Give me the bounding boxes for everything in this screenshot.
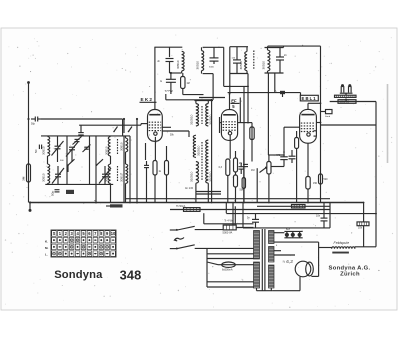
svg-text:50: 50	[34, 149, 38, 153]
coil L14 Feldspule	[332, 247, 355, 254]
trimmer capacitor CT1	[73, 137, 82, 145]
svg-text:Zürich: Zürich	[340, 272, 360, 278]
wire AVC line	[183, 94, 204, 96]
tube EK2 label	[140, 97, 157, 102]
capacitor C10	[238, 163, 244, 174]
resistor R5	[226, 159, 230, 203]
value label EK2 k	[159, 171, 162, 173]
node IFT1 junction	[170, 72, 172, 74]
svg-text:30510: 30510	[119, 142, 123, 151]
svg-text:5000: 5000	[209, 67, 215, 69]
svg-text:30510: 30510	[104, 146, 108, 155]
node bus j5	[268, 202, 270, 204]
node antenna bus junction	[123, 118, 125, 120]
wire EK2 g4	[162, 127, 172, 129]
connector grid switch table	[51, 230, 116, 257]
svg-text:1M: 1M	[187, 83, 190, 85]
wire rail x124b	[123, 136, 125, 203]
padder box	[66, 190, 74, 194]
core dashes IFT2b	[253, 51, 255, 69]
fuse F1 thermal	[176, 205, 200, 211]
capacitor C3 top	[78, 125, 84, 135]
resistor R9 cathode	[306, 143, 310, 202]
switch S bandA	[67, 159, 74, 172]
coil L6 osc	[190, 101, 199, 126]
svg-text:50p: 50p	[51, 191, 55, 196]
value label R9	[313, 182, 318, 185]
wire heater tap 1	[274, 241, 319, 243]
wire electrolytic rail top	[284, 230, 302, 232]
wire primary 4	[207, 281, 254, 283]
svg-text:≈ 6,3: ≈ 6,3	[283, 259, 294, 264]
node bus j6	[307, 202, 309, 204]
svg-text:E K 2: E K 2	[141, 97, 153, 102]
variable capacitor CV2	[52, 166, 64, 184]
wire transformer bottom	[257, 288, 273, 291]
coil L12 IFT2b	[239, 52, 247, 71]
capacitor C18 mains	[247, 213, 259, 228]
capacitor C pad	[51, 190, 60, 196]
capacitor C8 IFT2b	[232, 47, 242, 74]
coil L4b osc sec	[119, 138, 127, 152]
svg-text:5000 VA: 5000 VA	[223, 231, 233, 235]
wire antenna lead-in	[28, 83, 30, 119]
wire coil column 3	[125, 136, 127, 203]
value label IFT1	[165, 89, 174, 93]
switch S1 mains	[170, 226, 223, 231]
wire rail x145	[145, 143, 147, 160]
wire mid column a	[66, 136, 68, 185]
svg-text:3M: 3M	[22, 176, 26, 181]
value label R5	[219, 166, 223, 169]
wire IFT2a mid leg	[212, 74, 214, 100]
fuse F2	[292, 205, 306, 208]
fuse F3 primary	[223, 225, 254, 235]
switch S bandB	[96, 159, 103, 166]
wire EBL1 plate	[308, 102, 321, 109]
wire mains line 2	[257, 205, 330, 207]
wire IF bus	[228, 92, 301, 96]
svg-text:Sand: Sand	[325, 116, 331, 118]
switch contact b	[128, 127, 132, 133]
svg-text:30510: 30510	[262, 61, 266, 70]
wire IFT3 rails	[265, 48, 284, 156]
variable capacitor CV3	[66, 142, 78, 162]
svg-text:L.: L.	[45, 253, 48, 257]
wire x207 primary bus	[207, 248, 212, 287]
wire down to coil box	[123, 119, 125, 133]
capacitor C13 tone	[289, 150, 296, 163]
wire osc top out	[199, 97, 225, 99]
speaker LS1	[295, 261, 313, 277]
caption Sondyna	[54, 269, 103, 281]
wire field coil right	[355, 247, 376, 249]
wire left rail	[28, 119, 30, 203]
coil L11 IFT2a	[195, 51, 203, 71]
grid row label L	[45, 253, 48, 257]
wire osc injection	[239, 98, 241, 123]
transformer T1 secondary winding low	[269, 265, 275, 288]
wire primary 5	[207, 286, 254, 288]
node bus j2	[136, 202, 138, 204]
wire x233 drop	[233, 203, 235, 226]
coil L9 osc	[206, 101, 213, 126]
svg-text:30510: 30510	[176, 60, 180, 69]
resistor R1 antenna leak	[22, 164, 31, 182]
capacitor C16 electrolytic	[298, 231, 302, 237]
svg-text:EF: EF	[231, 98, 237, 103]
wire dial return	[321, 124, 377, 126]
caption 348	[120, 267, 142, 282]
wire osc link	[196, 192, 221, 195]
scan streak artifact right edge	[387, 84, 389, 163]
svg-text:30510: 30510	[41, 173, 45, 182]
coil L2 MW antenna	[41, 164, 49, 184]
potentiometer bar	[106, 204, 123, 207]
capacitor C12	[240, 150, 249, 203]
grid row label K	[45, 240, 48, 244]
variable capacitor CV4	[99, 166, 111, 184]
capacitor C14 electrolytic	[285, 231, 289, 237]
value label R4	[187, 83, 190, 85]
capacitor C5 IFT1 primary	[157, 47, 173, 73]
osc core dashes	[201, 106, 203, 180]
wire x330 down	[329, 203, 331, 228]
coil L7 osc	[193, 135, 200, 157]
svg-text:310510: 310510	[190, 114, 194, 125]
wire field coil left	[319, 248, 332, 249]
resistor R11 grid stopper	[321, 110, 333, 119]
wire speaker right	[311, 242, 318, 276]
svg-text:Tr 4 Vbr: Tr 4 Vbr	[224, 218, 233, 222]
capacitor C11	[271, 152, 287, 167]
coil L13 IFT3	[262, 48, 270, 74]
trimmer capacitor CT2	[275, 91, 285, 98]
lamp LP2 dial	[348, 84, 351, 92]
wire primary top	[204, 223, 254, 225]
wire EK2 grid line	[79, 124, 147, 126]
caption Zurich	[340, 272, 360, 278]
resistor R13 bleeder	[357, 222, 369, 230]
svg-text:348: 348	[120, 267, 142, 282]
wire x244 down	[243, 86, 245, 202]
tube EBL1	[300, 109, 317, 143]
lamp LP1 dial	[341, 84, 344, 92]
label transformer	[224, 218, 233, 222]
wire right rail	[375, 102, 377, 247]
wire EF5 cathode	[229, 135, 231, 159]
label dial lamps	[338, 100, 356, 104]
wire bleeder drop	[363, 202, 365, 247]
wire HT top	[243, 227, 330, 229]
variable capacitor CV1	[52, 136, 64, 162]
wire IFT2b right leg	[247, 74, 249, 123]
wire mains line 3	[226, 213, 377, 215]
wire heater tap 2	[274, 250, 281, 252]
svg-text:6x500mA: 6x500mA	[222, 269, 233, 272]
svg-text:30510: 30510	[119, 173, 123, 182]
resistor R8 EBL grid	[295, 131, 299, 203]
transformer T1 primary winding lower	[254, 262, 260, 288]
coil L5 IFT1 primary	[176, 51, 184, 71]
resistor R7	[234, 172, 238, 203]
coil L3 LW sec	[104, 137, 110, 157]
svg-text:310510: 310510	[190, 171, 194, 182]
wire EF5 grid cap	[220, 117, 222, 133]
transformer T1 secondary winding	[269, 231, 275, 244]
wire mid column c	[95, 136, 97, 204]
wire IFT2a rails	[202, 47, 224, 73]
coil L4c osc sec	[119, 164, 127, 184]
value label R6	[239, 163, 242, 165]
wire coil column 1	[47, 136, 49, 185]
coil L4 MW sec	[104, 164, 110, 184]
antenna terminal node	[27, 81, 30, 84]
resistor R3 screen	[165, 146, 169, 203]
svg-text:30510: 30510	[239, 61, 243, 70]
wire coil column 2	[110, 136, 112, 203]
wire x257 down	[256, 168, 258, 202]
svg-text:E B L 1: E B L 1	[302, 96, 317, 101]
wire EK2 plate	[154, 47, 156, 109]
svg-text:10n: 10n	[316, 215, 321, 218]
pin EBL1 beam	[314, 131, 317, 136]
transformer T1 secondary winding mid	[269, 247, 275, 263]
wire dial feed	[330, 98, 376, 101]
wire x203 drop	[203, 213, 205, 224]
wire speaker bottom	[273, 277, 300, 291]
ground terminal	[29, 201, 32, 212]
capacitor C7 IFT2a	[209, 47, 219, 68]
coil L10 osc	[206, 140, 213, 183]
svg-text:K.: K.	[45, 240, 48, 244]
resistor R4 IFT1	[181, 73, 185, 95]
wire EK2 cathode	[154, 137, 156, 160]
wire EBL1 screen	[316, 122, 320, 124]
capacitor C15 electrolytic	[291, 231, 295, 237]
tube EK2	[148, 110, 163, 142]
value label CV	[60, 160, 64, 162]
wire IFT3 top rail extension	[268, 46, 321, 47]
svg-text:Feldspule: Feldspule	[334, 241, 350, 245]
coil L8 osc	[190, 162, 199, 184]
wire rectifier tap	[274, 232, 284, 234]
wire IFT2b left leg	[229, 47, 231, 94]
svg-text:30510: 30510	[104, 173, 108, 182]
wire primary 3	[207, 258, 254, 260]
wire IFT2 bottom link	[224, 86, 249, 88]
svg-text:50p: 50p	[31, 123, 36, 126]
lamp bracket	[340, 93, 353, 95]
value label osc	[185, 186, 193, 190]
wire x243 drop	[242, 203, 244, 228]
wire IF out	[166, 94, 212, 100]
wire EF5 grid left	[211, 99, 213, 203]
wire x226 down	[225, 203, 227, 214]
wire EBL plate riser	[320, 46, 322, 202]
resistor R10	[319, 174, 329, 184]
capacitor C4	[144, 161, 149, 203]
tube EBL1 label	[300, 95, 318, 101]
svg-text:1M: 1M	[251, 169, 254, 172]
wire rail x137	[136, 118, 138, 204]
wire EBL1 grid	[283, 127, 299, 153]
svg-text:4n 1n5: 4n 1n5	[185, 186, 193, 190]
node left rail	[27, 118, 29, 120]
wire IFT2b rails	[230, 47, 248, 74]
potentiometer P1 volume	[251, 155, 271, 203]
node EBL screen join	[320, 122, 322, 124]
wire osc top rail	[194, 100, 213, 102]
transformer T1 primary winding	[254, 231, 260, 260]
label heater voltage	[283, 259, 294, 264]
node bus j3	[211, 202, 213, 204]
wire antenna lead to gang	[41, 119, 123, 136]
wire EK2 g2	[162, 131, 189, 137]
svg-text:310510: 310510	[197, 145, 201, 156]
svg-text:77??2: 77??2	[165, 89, 174, 93]
wire EF5 grid right	[238, 122, 252, 124]
capacitor C17 tone	[316, 203, 328, 228]
wire IFT1 top rail	[154, 46, 182, 48]
wire osc col1 down	[195, 183, 197, 202]
wire mains line 1	[170, 209, 330, 211]
core dashes 1	[117, 139, 119, 182]
value label EK2 g2	[170, 135, 175, 137]
tube EF5 label	[231, 98, 240, 109]
label field coil	[334, 241, 350, 245]
wire coilbox top rail	[41, 135, 130, 137]
value label electrolytics	[286, 229, 291, 231]
value label taps	[276, 245, 278, 247]
wire electrolytic rail bottom	[284, 237, 302, 239]
svg-text:30510: 30510	[41, 146, 45, 155]
wire speaker feed	[274, 254, 295, 256]
transformer T1 core	[262, 229, 265, 291]
svg-text:150: 150	[313, 182, 318, 185]
caption Sondyna AG	[328, 265, 370, 271]
switch contact a	[113, 127, 117, 133]
svg-text:S: S	[53, 231, 56, 236]
wire mid column b	[89, 136, 91, 185]
capacitor C1 antenna coupling	[31, 117, 41, 126]
coil L1 LW antenna	[41, 137, 49, 157]
grid row label M	[45, 246, 48, 250]
wire coilbox right rail	[129, 136, 131, 204]
resistor R6	[234, 151, 238, 172]
svg-text:10: 10	[111, 231, 116, 236]
switch S2 mains	[170, 245, 254, 250]
node bus j4	[243, 202, 245, 204]
svg-text:M.: M.	[45, 246, 48, 250]
node bus j1	[95, 202, 97, 204]
svg-text:30510: 30510	[195, 61, 199, 70]
wire x252 column	[250, 123, 254, 162]
svg-text:Sondyna A.G.: Sondyna A.G.	[328, 265, 370, 271]
wire pot top link	[268, 154, 285, 156]
wire osc col2 down	[207, 183, 209, 202]
capacitor C9 IFT3	[276, 48, 287, 74]
bus chassis ground	[30, 202, 364, 204]
svg-text:520: 520	[324, 178, 329, 181]
wire coilbox bottom rail	[45, 183, 113, 185]
fuse F4	[207, 262, 254, 272]
resistor R2 cathode	[153, 161, 157, 203]
wire IFT2a right leg	[223, 47, 225, 86]
wire primary 2	[207, 253, 254, 255]
svg-text:5-: 5-	[275, 91, 277, 93]
svg-text:Sondyna: Sondyna	[54, 269, 103, 281]
wire IFT1 link	[170, 71, 182, 73]
capacitor C6 IFT1	[160, 73, 176, 94]
wire heater bus	[125, 198, 330, 200]
capacitor C2 input	[34, 145, 42, 153]
tube EF5	[221, 110, 237, 141]
paper noise speckles	[5, 35, 393, 308]
resistor R12 dial dropper	[335, 95, 357, 97]
svg-text:Th 50mA: Th 50mA	[176, 205, 186, 208]
wire EF5 plate	[229, 93, 231, 110]
mains plug arrow	[175, 238, 185, 241]
trimmer capacitor CT1b	[83, 145, 91, 153]
